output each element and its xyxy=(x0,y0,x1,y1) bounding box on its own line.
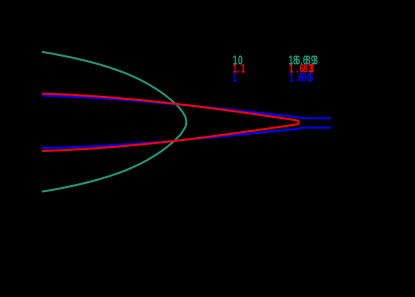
svg-text:1: 1 xyxy=(289,72,294,85)
blue beam envelope top xyxy=(42,96,331,119)
svg-text:5: 5 xyxy=(309,72,314,85)
green curve (focusing arc) xyxy=(42,52,187,192)
red beam envelope (top + tip + bottom) xyxy=(42,94,299,151)
svg-text:0: 0 xyxy=(302,72,307,85)
svg-text:.: . xyxy=(296,72,298,85)
blue beam envelope bottom xyxy=(42,128,331,148)
svg-text:1: 1 xyxy=(233,72,238,85)
svg-text:1: 1 xyxy=(241,63,246,76)
svg-text:.: . xyxy=(237,63,239,76)
